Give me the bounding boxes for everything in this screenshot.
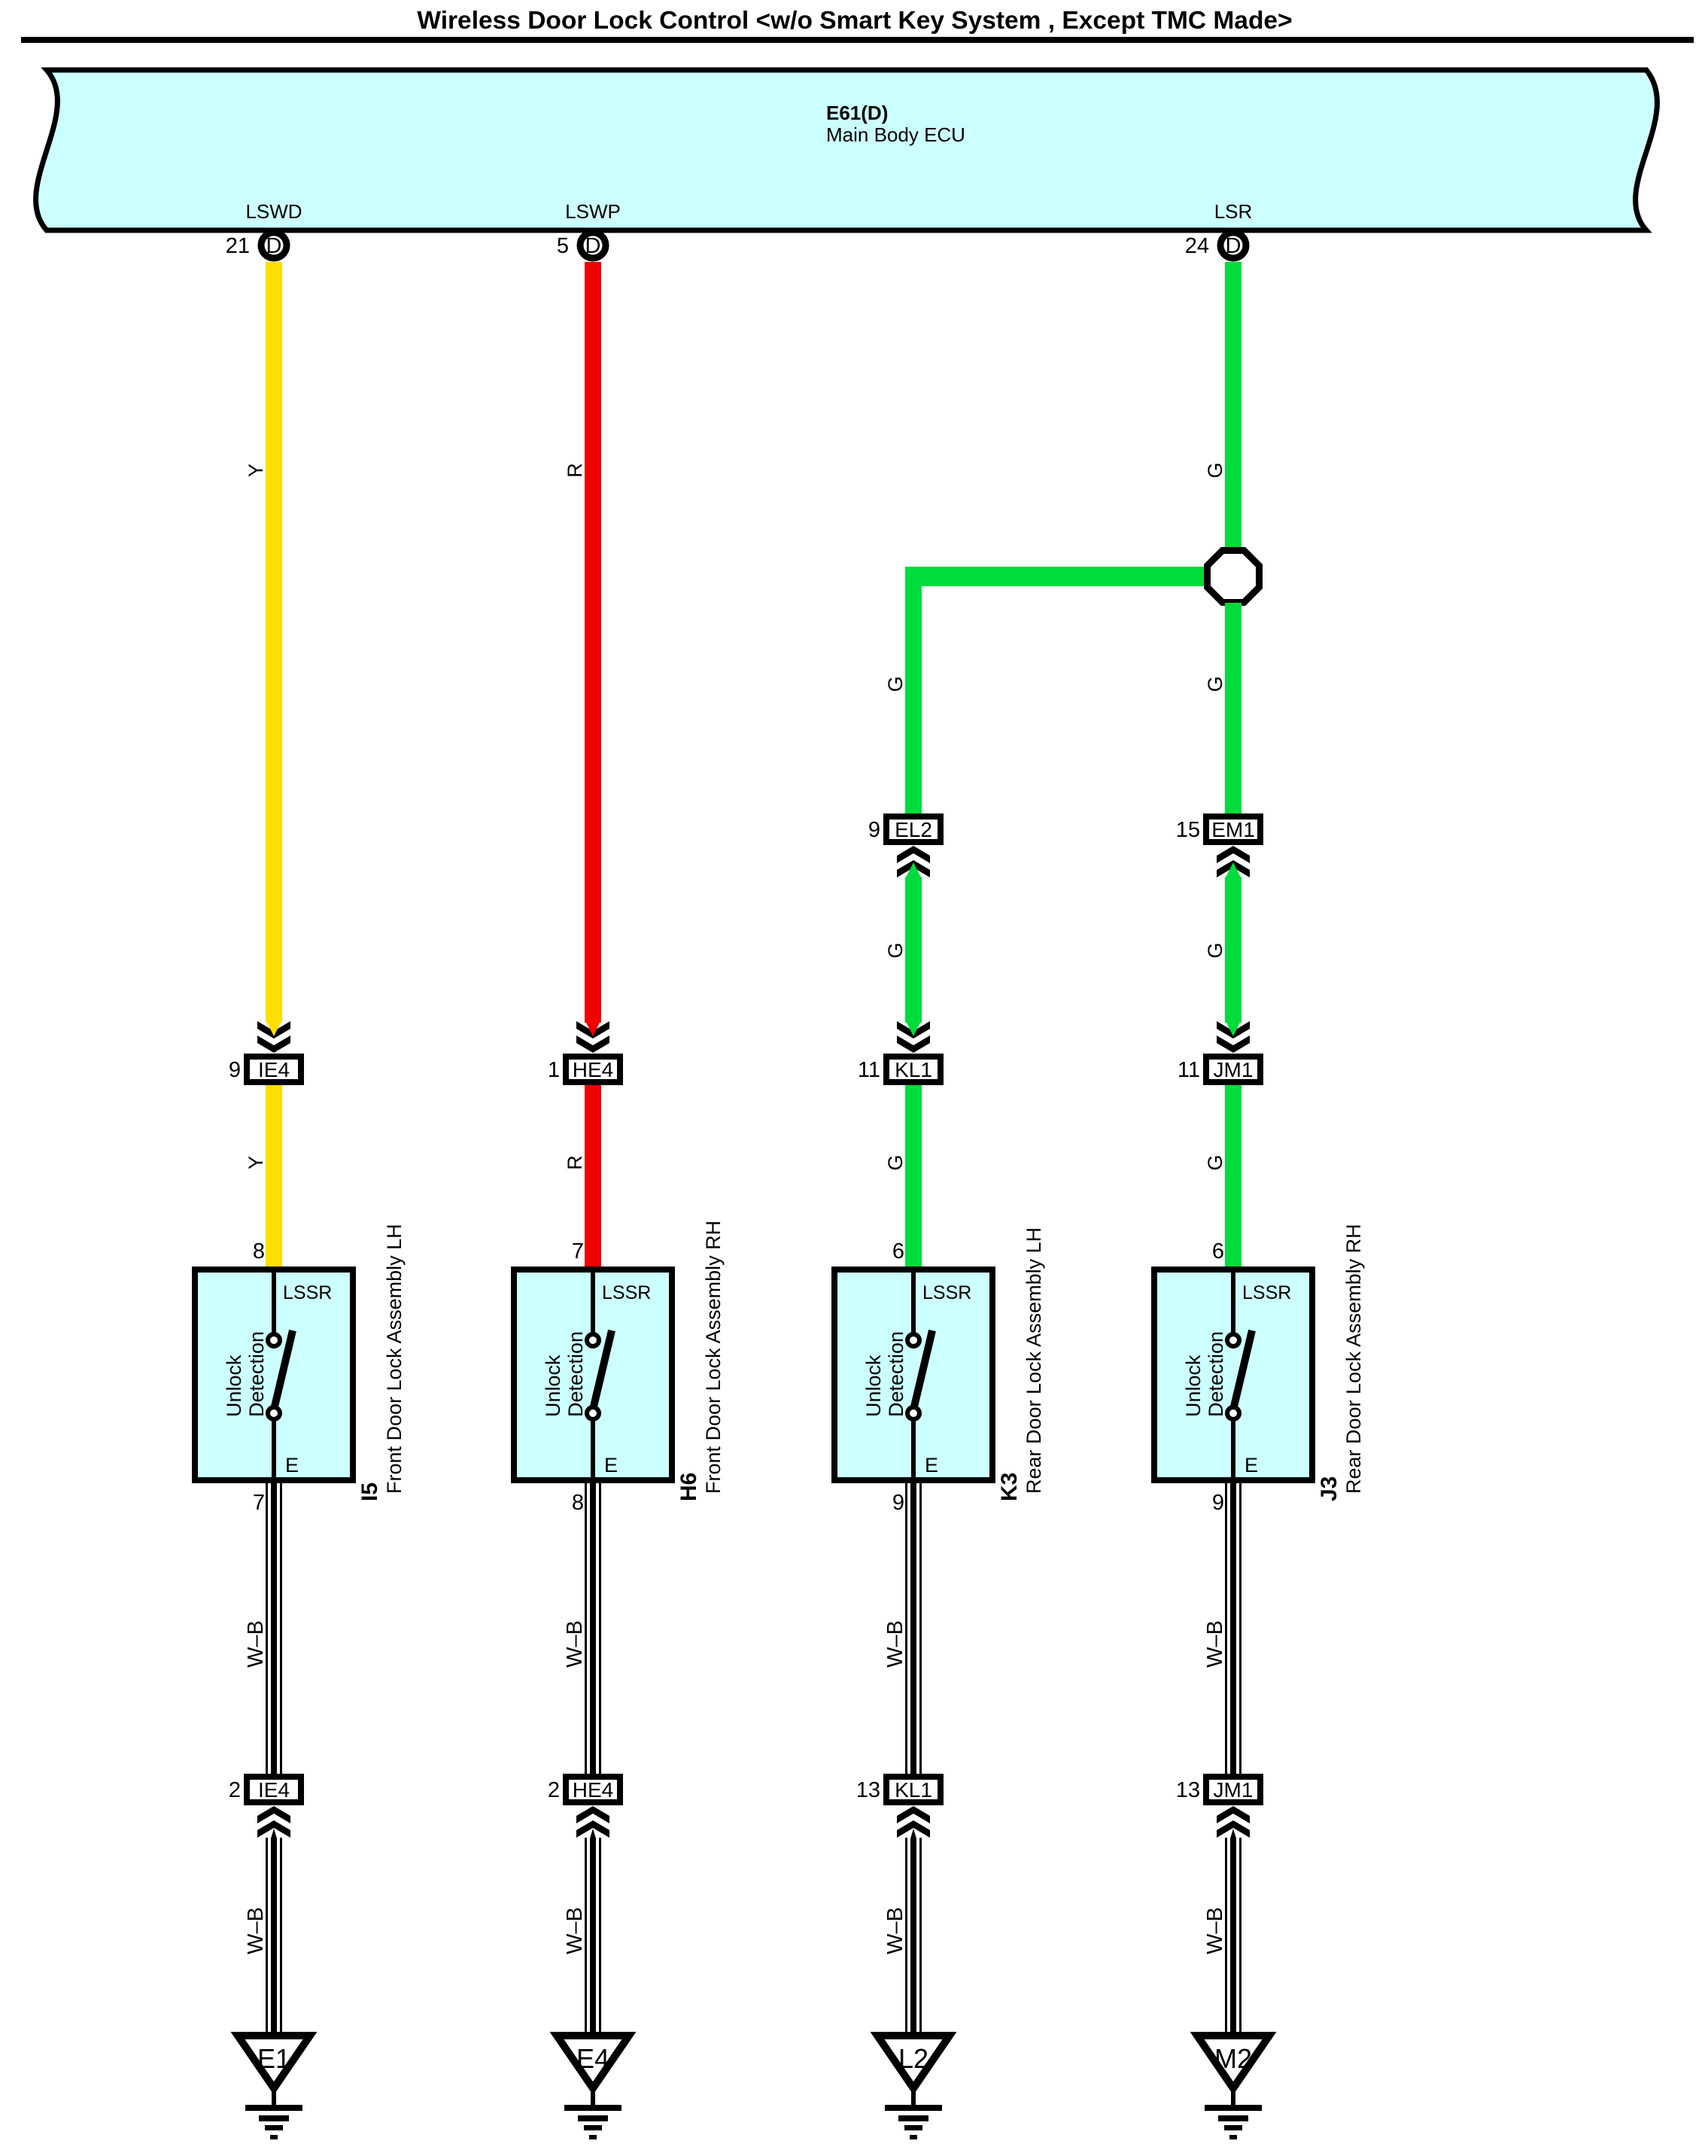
wire W-B from J3 pin 9 to connector JM1 pin 13 xyxy=(1225,1483,1241,1774)
svg-text:W–B: W–B xyxy=(1203,1620,1227,1668)
svg-text:24: 24 xyxy=(1185,234,1209,258)
connector KL1 pin 11 (mating chevrons) xyxy=(858,1021,941,1082)
wire label W-B xyxy=(563,1620,587,1668)
svg-text:G: G xyxy=(1204,942,1226,958)
wire Y from connector to door lock pin 8 xyxy=(266,1085,282,1267)
wire R from connector to door lock pin 7 xyxy=(585,1085,601,1267)
svg-text:G: G xyxy=(1204,1154,1226,1170)
wire G from EL2 to connector KL1 xyxy=(905,877,922,1023)
wire label W-B xyxy=(1203,1620,1227,1668)
svg-text:Detection: Detection xyxy=(1205,1331,1227,1417)
designator J3 xyxy=(1317,1476,1342,1501)
svg-text:Unlock: Unlock xyxy=(862,1355,885,1417)
title underline xyxy=(21,37,1694,43)
wire label Y xyxy=(245,1156,267,1169)
wire W-B from KL1 to ground L2 xyxy=(905,1829,922,2036)
svg-text:8: 8 xyxy=(572,1491,584,1515)
svg-text:R: R xyxy=(564,1155,586,1170)
label Front Door Lock Assembly RH xyxy=(702,1221,725,1494)
wire R from ECU pin to connector HE4 xyxy=(585,262,601,1023)
wire W-B from H6 pin 8 to connector HE4 pin 2 xyxy=(585,1483,601,1774)
svg-text:W–B: W–B xyxy=(883,1620,907,1668)
wire label G xyxy=(1204,942,1226,958)
ECU pin LSWP 5 D xyxy=(557,200,621,258)
svg-text:13: 13 xyxy=(1176,1778,1200,1802)
wire label R xyxy=(564,463,586,478)
svg-text:D: D xyxy=(266,234,282,258)
wire label G xyxy=(884,1154,907,1170)
wire label W-B xyxy=(563,1907,587,1954)
svg-text:Y: Y xyxy=(245,1156,267,1169)
designator I5 xyxy=(357,1482,382,1501)
svg-text:LSSR: LSSR xyxy=(1242,1282,1291,1303)
svg-text:W–B: W–B xyxy=(563,1907,587,1954)
ground E4 xyxy=(557,2036,629,2139)
svg-text:13: 13 xyxy=(856,1778,880,1802)
svg-text:7: 7 xyxy=(572,1239,584,1263)
svg-text:M2: M2 xyxy=(1214,2043,1252,2074)
svg-text:6: 6 xyxy=(892,1239,904,1263)
svg-text:LSSR: LSSR xyxy=(602,1282,651,1303)
svg-text:G: G xyxy=(1204,676,1226,692)
ECU pin LSWD 21 D xyxy=(226,200,302,258)
svg-text:1: 1 xyxy=(548,1058,560,1082)
svg-text:6: 6 xyxy=(1212,1239,1224,1263)
wire G from ECU LSR pin 24 to junction xyxy=(1225,262,1241,550)
svg-text:7: 7 xyxy=(253,1491,265,1515)
svg-text:IE4: IE4 xyxy=(258,1058,290,1081)
label Rear Door Lock Assembly RH xyxy=(1342,1224,1365,1494)
pin 8 label xyxy=(253,1239,265,1263)
svg-text:G: G xyxy=(1204,462,1226,478)
svg-text:H6: H6 xyxy=(676,1473,701,1501)
connector IE4 pin 9 (mating chevrons) xyxy=(229,1021,301,1082)
pin 8 label xyxy=(572,1491,584,1515)
connector EM1 pin 15 (mating chevrons) xyxy=(1176,816,1260,877)
svg-text:11: 11 xyxy=(1178,1058,1200,1082)
svg-text:9: 9 xyxy=(1212,1491,1224,1515)
svg-text:2: 2 xyxy=(548,1778,560,1802)
ground M2 xyxy=(1197,2036,1269,2139)
label Front Door Lock Assembly LH xyxy=(383,1224,406,1494)
pin 6 label xyxy=(1212,1239,1224,1263)
wire W-B from HE4 to ground E4 xyxy=(585,1829,601,2036)
svg-text:LSWP: LSWP xyxy=(565,200,621,223)
door lock assembly I5 with unlock detection switch xyxy=(195,1270,353,1483)
wire label W-B xyxy=(883,1620,907,1668)
connector IE4 pin 2 (mating chevrons) xyxy=(229,1777,301,1838)
wire label W-B xyxy=(244,1907,268,1954)
svg-text:K3: K3 xyxy=(997,1473,1022,1501)
svg-text:EM1: EM1 xyxy=(1211,818,1255,841)
designator K3 xyxy=(997,1473,1022,1501)
wire W-B from IE4 to ground E1 xyxy=(266,1829,282,2036)
svg-text:E: E xyxy=(604,1454,618,1476)
connector HE4 pin 2 (mating chevrons) xyxy=(548,1777,620,1838)
svg-text:9: 9 xyxy=(892,1491,904,1515)
ECU pin LSR 24 D xyxy=(1185,200,1253,258)
door lock assembly J3 with unlock detection switch xyxy=(1154,1270,1312,1483)
junction octagon xyxy=(1208,551,1260,603)
wire G from EM1 to connector JM1 xyxy=(1225,877,1241,1023)
wire G from junction branch down to connector EL2 xyxy=(905,567,922,813)
wire label G xyxy=(1204,676,1226,692)
svg-text:KL1: KL1 xyxy=(895,1058,932,1081)
svg-text:W–B: W–B xyxy=(244,1620,268,1668)
wire label G xyxy=(884,942,907,958)
svg-text:HE4: HE4 xyxy=(573,1778,613,1802)
svg-text:E: E xyxy=(1245,1454,1258,1476)
door lock assembly H6 with unlock detection switch xyxy=(514,1270,672,1483)
designator H6 xyxy=(676,1473,701,1501)
svg-text:E61(D): E61(D) xyxy=(826,102,888,124)
svg-text:Detection: Detection xyxy=(564,1331,587,1417)
svg-text:L2: L2 xyxy=(898,2043,928,2074)
svg-text:Rear Door Lock Assembly RH: Rear Door Lock Assembly RH xyxy=(1342,1224,1365,1494)
ground E1 xyxy=(238,2036,310,2139)
svg-text:JM1: JM1 xyxy=(1214,1778,1254,1802)
svg-text:HE4: HE4 xyxy=(573,1058,613,1081)
svg-text:15: 15 xyxy=(1176,818,1200,842)
wire G from connector to door lock pin 6 xyxy=(1225,1085,1241,1267)
svg-text:W–B: W–B xyxy=(563,1620,587,1668)
svg-text:Detection: Detection xyxy=(245,1331,268,1417)
svg-text:9: 9 xyxy=(229,1058,241,1082)
wire G from junction to connector EM1 xyxy=(1225,603,1241,813)
wire label G xyxy=(1204,1154,1226,1170)
wire W-B from I5 pin 7 to connector IE4 pin 2 xyxy=(266,1483,282,1774)
svg-text:Y: Y xyxy=(245,464,267,477)
svg-text:Unlock: Unlock xyxy=(542,1355,564,1417)
wire G from connector to door lock pin 6 xyxy=(905,1085,922,1267)
svg-text:2: 2 xyxy=(229,1778,241,1802)
ECU E61(D) Main Body ECU band xyxy=(36,70,1658,230)
svg-text:I5: I5 xyxy=(357,1482,382,1501)
svg-text:Wireless Door Lock Control <w/: Wireless Door Lock Control <w/o Smart Ke… xyxy=(417,7,1292,35)
wire Y from ECU pin to connector IE4 xyxy=(266,262,282,1023)
svg-text:G: G xyxy=(884,1154,907,1170)
svg-text:LSWD: LSWD xyxy=(245,200,302,223)
svg-text:Rear Door Lock Assembly LH: Rear Door Lock Assembly LH xyxy=(1023,1227,1045,1494)
wire label R xyxy=(564,1155,586,1170)
pin 7 label xyxy=(253,1491,265,1515)
svg-text:Unlock: Unlock xyxy=(1182,1355,1205,1417)
door lock assembly K3 with unlock detection switch xyxy=(834,1270,992,1483)
wire G branch horizontal from junction to rear-LH column xyxy=(905,567,1208,586)
svg-text:Main Body ECU: Main Body ECU xyxy=(826,123,965,146)
wire W-B from K3 pin 9 to connector KL1 pin 13 xyxy=(905,1483,922,1774)
pin 7 label xyxy=(572,1239,584,1263)
svg-text:Front Door Lock Assembly RH: Front Door Lock Assembly RH xyxy=(702,1221,725,1494)
ground L2 xyxy=(877,2036,950,2139)
connector KL1 pin 13 (mating chevrons) xyxy=(856,1777,941,1838)
svg-text:Unlock: Unlock xyxy=(223,1355,245,1417)
connector EL2 pin 9 (mating chevrons) xyxy=(868,816,941,877)
svg-text:LSR: LSR xyxy=(1214,200,1253,223)
svg-text:W–B: W–B xyxy=(1203,1907,1227,1954)
svg-text:IE4: IE4 xyxy=(258,1778,290,1802)
svg-text:E1: E1 xyxy=(257,2043,290,2074)
wire label Y xyxy=(245,464,267,477)
svg-text:D: D xyxy=(1226,234,1241,258)
svg-text:Front Door Lock Assembly LH: Front Door Lock Assembly LH xyxy=(383,1224,406,1494)
svg-text:8: 8 xyxy=(253,1239,265,1263)
svg-text:21: 21 xyxy=(226,234,250,258)
svg-text:E: E xyxy=(285,1454,299,1476)
svg-text:E: E xyxy=(925,1454,938,1476)
label Rear Door Lock Assembly LH xyxy=(1023,1227,1045,1494)
wire label G xyxy=(884,676,907,692)
connector JM1 pin 13 (mating chevrons) xyxy=(1176,1777,1260,1838)
pin 6 label xyxy=(892,1239,904,1263)
svg-text:G: G xyxy=(884,676,907,692)
wire W-B from JM1 to ground M2 xyxy=(1225,1829,1241,2036)
title: Wireless Door Lock Control xyxy=(417,7,1292,35)
svg-text:E4: E4 xyxy=(576,2043,609,2074)
svg-text:JM1: JM1 xyxy=(1214,1058,1254,1081)
svg-text:KL1: KL1 xyxy=(895,1778,932,1802)
svg-text:LSSR: LSSR xyxy=(922,1282,971,1303)
svg-text:J3: J3 xyxy=(1317,1476,1342,1501)
svg-text:9: 9 xyxy=(868,818,880,842)
svg-text:Detection: Detection xyxy=(885,1331,907,1417)
svg-text:R: R xyxy=(564,463,586,478)
wire label W-B xyxy=(883,1907,907,1954)
connector HE4 pin 1 (mating chevrons) xyxy=(548,1021,620,1082)
wire label W-B xyxy=(1203,1907,1227,1954)
pin 9 label xyxy=(892,1491,904,1515)
wire label G xyxy=(1204,462,1226,478)
wire label W-B xyxy=(244,1620,268,1668)
svg-text:11: 11 xyxy=(858,1058,880,1082)
svg-text:W–B: W–B xyxy=(244,1907,268,1954)
svg-text:EL2: EL2 xyxy=(895,818,932,841)
svg-text:5: 5 xyxy=(557,234,569,258)
svg-text:G: G xyxy=(884,942,907,958)
svg-text:W–B: W–B xyxy=(883,1907,907,1954)
pin 9 label xyxy=(1212,1491,1224,1515)
svg-text:D: D xyxy=(585,234,601,258)
connector JM1 pin 11 (mating chevrons) xyxy=(1178,1021,1260,1082)
svg-text:LSSR: LSSR xyxy=(283,1282,332,1303)
